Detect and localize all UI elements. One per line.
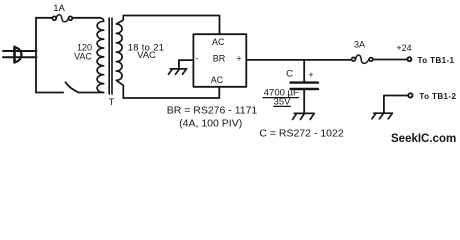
wire fuse to terminal (373, 59, 406, 61)
bridge rectifier BR box (193, 34, 246, 87)
svg-text:VAC: VAC (137, 50, 156, 61)
transformer T primary winding (97, 18, 104, 93)
transformer T secondary winding (116, 16, 123, 99)
ground chassis at capacitor (293, 113, 315, 119)
terminal TB1-1 (407, 57, 411, 61)
switch S1 (66, 82, 79, 92)
svg-text:3A: 3A (354, 40, 365, 50)
fuse F1 1A (52, 15, 72, 22)
wire top primary (36, 17, 52, 19)
svg-text:C = RS272 - 1022: C = RS272 - 1022 (259, 127, 344, 139)
svg-text:C: C (286, 69, 293, 80)
wire switch to transformer (79, 92, 104, 94)
svg-text:+: + (308, 70, 313, 80)
wire bridge minus to ground (179, 60, 194, 68)
svg-text:(4A, 100 PIV): (4A, 100 PIV) (179, 117, 242, 129)
svg-text:T: T (109, 97, 115, 107)
svg-text:AC: AC (212, 37, 225, 47)
svg-text:-: - (196, 54, 199, 64)
capacitor C wire down (303, 60, 305, 82)
svg-text:To TB1-1: To TB1-1 (418, 56, 455, 65)
wire bridge plus output (246, 59, 351, 61)
ground chassis at bridge (169, 69, 187, 74)
capacitor C plates (291, 81, 319, 83)
wire secondary bottom to bridge (123, 87, 219, 98)
svg-text:VAC: VAC (74, 52, 92, 62)
terminal TB1-2 (408, 93, 412, 97)
wire fuse to transformer (73, 17, 101, 19)
svg-text:AC: AC (211, 75, 224, 85)
wire TB1-2 to ground (384, 96, 408, 113)
svg-text:To TB1-2: To TB1-2 (419, 92, 456, 101)
wire bottom left (36, 92, 63, 94)
svg-text:BR: BR (213, 54, 226, 64)
transformer core (109, 18, 112, 94)
ground chassis at TB1-2 (372, 113, 392, 119)
fuse F2 3A (352, 55, 373, 63)
svg-text:+: + (236, 54, 241, 64)
wire left vertical (35, 18, 37, 93)
svg-text:+24: +24 (396, 43, 411, 53)
wire capacitor to ground (303, 90, 305, 113)
wire secondary top to bridge (123, 16, 219, 35)
AC plug P1 (3, 47, 37, 63)
svg-text:SeekIC.com: SeekIC.com (391, 133, 456, 145)
svg-text:BR = RS276 - 1171: BR = RS276 - 1171 (167, 105, 258, 117)
svg-text:1A: 1A (53, 3, 65, 14)
